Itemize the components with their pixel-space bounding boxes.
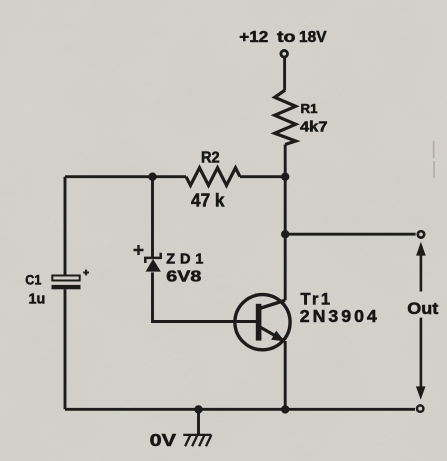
svg-text:R1: R1: [301, 101, 318, 116]
svg-text:R2: R2: [201, 150, 220, 167]
svg-text:ZD1: ZD1: [166, 251, 203, 267]
svg-text:4k7: 4k7: [300, 120, 328, 136]
svg-text:0V: 0V: [150, 430, 177, 450]
svg-text:Out: Out: [407, 300, 439, 318]
svg-text:+12: +12: [239, 29, 268, 46]
svg-text:6V8: 6V8: [166, 269, 201, 286]
svg-text:18V: 18V: [299, 29, 327, 46]
svg-text:1u: 1u: [29, 290, 46, 307]
svg-text:47 k: 47 k: [191, 190, 225, 210]
svg-text:C1: C1: [25, 271, 41, 287]
svg-text:to: to: [277, 29, 296, 46]
